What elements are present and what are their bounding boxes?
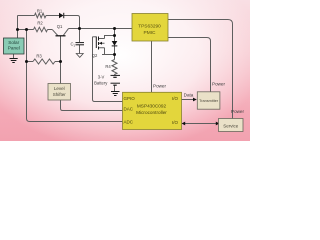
svg-text:MSP430C092: MSP430C092 bbox=[137, 104, 167, 109]
svg-text:Power: Power bbox=[153, 84, 166, 89]
svg-text:Service: Service bbox=[223, 124, 239, 129]
svg-text:Power: Power bbox=[231, 109, 244, 114]
svg-text:Data: Data bbox=[184, 93, 194, 98]
svg-text:Q1: Q1 bbox=[57, 24, 63, 29]
svg-text:R1: R1 bbox=[37, 9, 43, 14]
svg-text:Power: Power bbox=[212, 82, 225, 87]
svg-text:TPS63290: TPS63290 bbox=[138, 24, 161, 30]
svg-text:R2: R2 bbox=[37, 21, 43, 26]
svg-text:R3: R3 bbox=[36, 54, 42, 59]
svg-text:Panel: Panel bbox=[8, 46, 20, 51]
svg-text:I/O: I/O bbox=[172, 120, 179, 125]
svg-text:ADC: ADC bbox=[124, 120, 134, 125]
svg-text:Transmitter: Transmitter bbox=[199, 99, 219, 103]
svg-text:PMIC: PMIC bbox=[144, 30, 157, 36]
svg-text:Shifter: Shifter bbox=[53, 92, 67, 97]
svg-text:3-V: 3-V bbox=[98, 75, 105, 80]
svg-text:GPIO: GPIO bbox=[124, 96, 136, 101]
svg-text:Level: Level bbox=[54, 86, 65, 91]
svg-text:Solar: Solar bbox=[8, 40, 19, 45]
svg-text:Q2: Q2 bbox=[92, 53, 98, 58]
svg-text:DAC: DAC bbox=[124, 107, 134, 112]
svg-text:Battery: Battery bbox=[94, 80, 108, 85]
svg-text:Microcontroller: Microcontroller bbox=[136, 110, 167, 115]
svg-text:I/O: I/O bbox=[172, 96, 179, 101]
svg-text:R4: R4 bbox=[105, 64, 111, 69]
